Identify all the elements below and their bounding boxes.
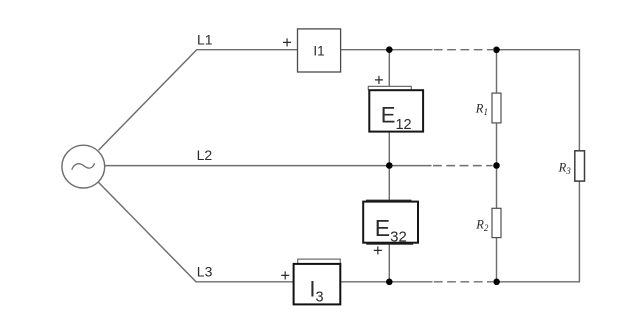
svg-text:R1: R1 xyxy=(475,101,488,116)
svg-text:L3: L3 xyxy=(197,263,213,279)
svg-text:+: + xyxy=(280,267,290,285)
svg-text:L1: L1 xyxy=(197,32,213,48)
svg-text:+: + xyxy=(374,72,384,90)
svg-text:R2: R2 xyxy=(475,218,489,233)
svg-text:L2: L2 xyxy=(197,147,213,163)
svg-text:R3: R3 xyxy=(558,160,572,175)
svg-text:+: + xyxy=(282,34,292,52)
svg-text:+: + xyxy=(373,242,383,260)
svg-text:I1: I1 xyxy=(313,43,324,58)
